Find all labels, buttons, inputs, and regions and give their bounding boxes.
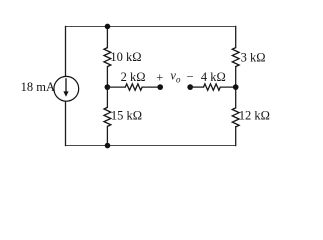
node terminal a — [157, 84, 163, 90]
svg-text:12 kΩ: 12 kΩ — [239, 109, 270, 123]
resistor R1 10 kOhm — [104, 48, 111, 67]
node junction right — [233, 84, 239, 90]
wire middle vertical mid — [106, 67, 108, 108]
wire right vertical mid — [235, 67, 237, 108]
svg-text:2 kΩ: 2 kΩ — [121, 70, 146, 84]
wire middle branch left — [107, 86, 125, 88]
svg-text:4 kΩ: 4 kΩ — [201, 70, 226, 84]
node junction middle — [105, 84, 111, 90]
node junction top — [105, 24, 111, 30]
wire left branch upper — [65, 26, 67, 76]
wire top rail — [65, 25, 236, 27]
resistor R6 12 kOhm — [232, 108, 239, 127]
wire right vertical lower — [235, 127, 237, 146]
svg-text:3 kΩ: 3 kΩ — [241, 50, 266, 64]
svg-text:−: − — [187, 70, 194, 84]
wire bottom rail — [65, 145, 236, 147]
wire left branch lower — [65, 101, 67, 146]
node terminal b — [187, 84, 193, 90]
wire to terminal a — [142, 86, 160, 88]
wire from terminal b — [190, 86, 203, 88]
wire middle branch right — [220, 86, 236, 88]
wire middle vertical lower — [106, 126, 108, 145]
svg-text:+: + — [156, 71, 163, 85]
resistor R4 4 kOhm — [204, 84, 221, 90]
svg-text:15 kΩ: 15 kΩ — [111, 109, 142, 123]
resistor R5 3 kOhm — [232, 48, 239, 67]
current source I1 18 mA — [54, 76, 79, 101]
wire right vertical upper — [235, 26, 237, 47]
svg-text:10 kΩ: 10 kΩ — [110, 50, 141, 64]
svg-text:18 mA: 18 mA — [21, 80, 55, 94]
resistor R2 15 kOhm — [104, 107, 111, 126]
node junction bottom — [105, 143, 111, 149]
wire middle vertical upper — [106, 26, 108, 47]
resistor R3 2 kOhm — [125, 84, 142, 90]
svg-text:vo: vo — [170, 69, 181, 85]
